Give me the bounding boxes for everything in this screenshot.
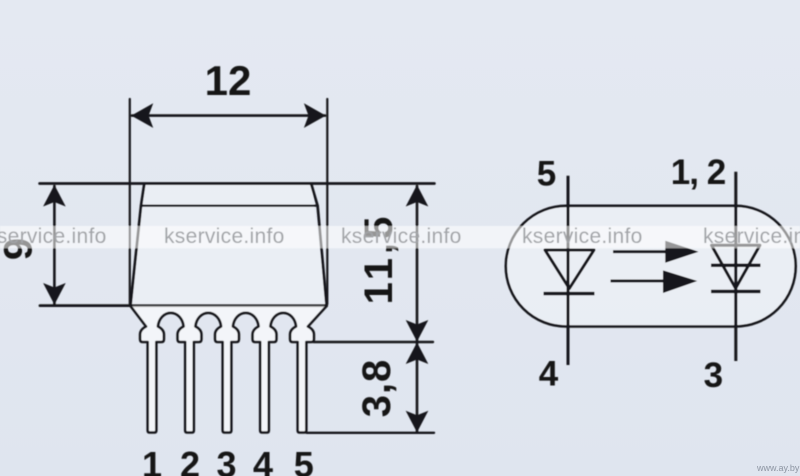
photodiode D2 middle bar [711,264,761,267]
extension line right (dim 12) [326,99,328,304]
extension line left (dim 12) [129,99,131,304]
arrow up of dim 9 [43,185,66,207]
svg-text:1: 1 [142,444,162,476]
svg-text:3: 3 [704,356,723,395]
svg-text:3: 3 [216,444,236,476]
light arrow 2 head [663,270,697,293]
arrow down of dim 11,5 [406,320,429,342]
wire: top reference line [40,182,435,185]
svg-text:1, 2: 1, 2 [671,153,726,192]
arrowheads left figure [43,103,428,432]
wire: body bottom reference line [40,304,327,307]
svg-text:2: 2 [180,444,200,476]
svg-text:5: 5 [537,154,556,193]
wire: cathode lead pins 1,2 [734,172,737,361]
arrow down of dim 9 [43,283,66,305]
svg-text:kservice.info: kservice.info [0,225,107,248]
package skirt and 5 pins outline [131,306,327,433]
svg-text:kservice.info: kservice.info [703,225,800,248]
LED D1 triangle [545,250,594,289]
light arrow 1 head [665,241,698,263]
light arrow 1 shaft [613,250,668,253]
arrow left of dim 12 [131,103,153,128]
package body outline [131,185,145,306]
dimension line 12 [132,114,325,117]
svg-text:5: 5 [294,444,314,476]
watermark text row [0,225,800,248]
dimension line 11,5 / 3,8 [416,186,419,432]
body interior tint [131,185,327,306]
arrow down of dim 3,8 [406,411,429,433]
optocoupler case outline U1 [506,206,796,327]
package lid line [141,205,318,207]
photodiode D2 cathode bar [711,290,761,293]
LED D1 cathode bar [544,292,595,295]
light arrow 2 shaft [611,279,667,282]
svg-text:kservice.info: kservice.info [341,225,462,248]
svg-text:4: 4 [539,354,559,393]
svg-text:3,8: 3,8 [355,359,399,418]
watermark band [0,226,800,248]
wire: pin tip line right [307,432,435,434]
svg-text:www.ay.by: www.ay.by [756,463,800,473]
svg-text:kservice.info: kservice.info [522,225,643,248]
wire: pin seat line right [313,341,433,343]
svg-text:12: 12 [205,57,252,104]
svg-text:4: 4 [253,444,273,476]
arrow right of dim 12 [304,103,326,128]
wire: anode lead pin 5 [567,176,570,365]
arrow up of dim 3,8 [406,342,429,364]
svg-text:kservice.info: kservice.info [164,225,285,248]
dimension line 9 [53,186,56,304]
photodiode D2 triangle [712,245,760,288]
arrow up of dim 11,5 [406,185,429,207]
